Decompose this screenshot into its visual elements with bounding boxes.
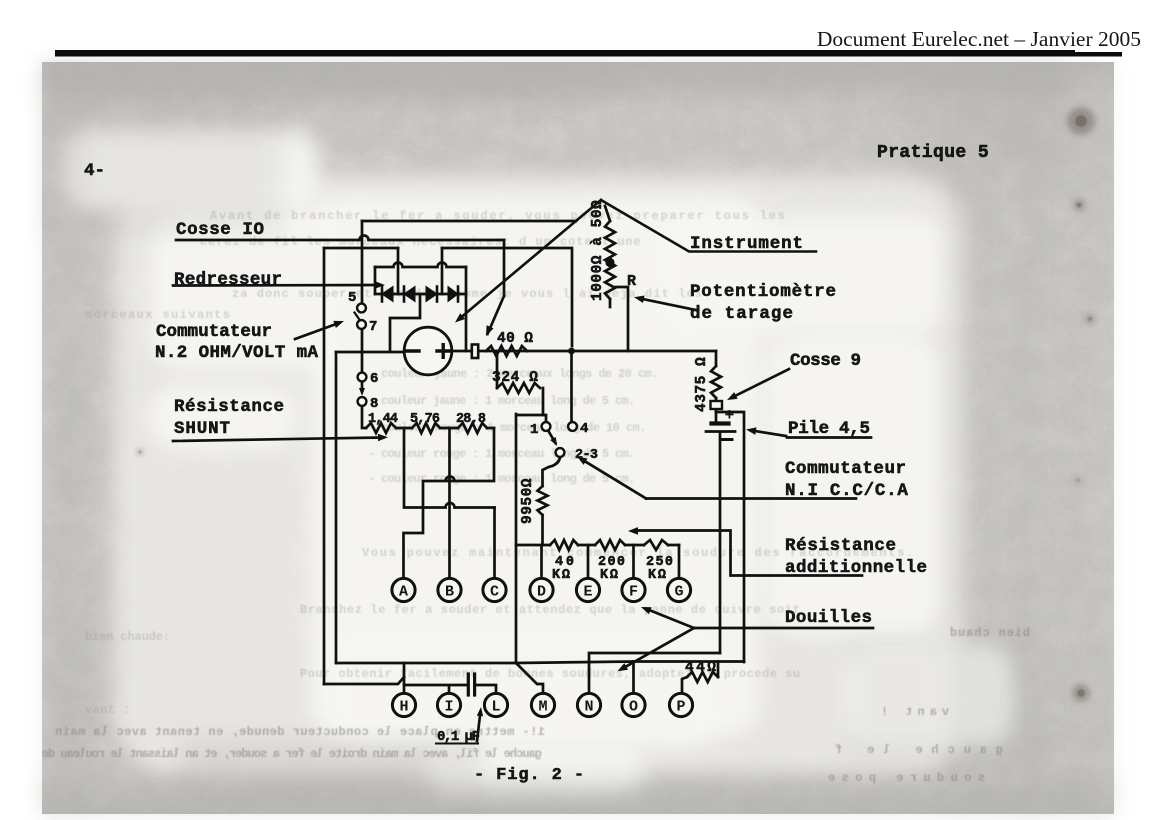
- svg-text:Pile 4,5: Pile 4,5: [788, 419, 870, 439]
- svg-text:40 Ω: 40 Ω: [497, 331, 533, 347]
- douille C: [483, 578, 506, 601]
- svg-text:morceaux suivants: morceaux suivants: [85, 308, 231, 322]
- meter instrument M: [404, 327, 452, 375]
- wire: outer left vertical: [323, 248, 326, 684]
- resistor shunt 5,76: [412, 423, 440, 433]
- wire: douille H stem: [403, 663, 406, 693]
- svg-text:Document Eurelec.net – Janvier: Document Eurelec.net – Janvier 2005: [817, 27, 1141, 51]
- svg-text:Redresseur: Redresseur: [174, 270, 282, 290]
- rectifier bridge diode D4: [457, 287, 460, 302]
- wire: 324 ohm left lead up to bus: [496, 351, 499, 388]
- svg-text:2-3: 2-3: [575, 448, 598, 463]
- switch contact 1: [542, 422, 551, 431]
- wire: switch column lower section contacts 7 to 6: [361, 329, 364, 372]
- svg-text:D: D: [537, 583, 546, 600]
- douille L: [484, 693, 507, 716]
- svg-text:M: M: [538, 698, 547, 715]
- switch contact 7: [357, 320, 366, 329]
- switch lever 5-7: [355, 313, 360, 320]
- svg-text:7: 7: [369, 319, 377, 335]
- wire: shunt tap1 down and across to douille C: [404, 428, 495, 508]
- wire: potentiometer bottom stub: [609, 299, 612, 307]
- svg-text:- couleur jaune : 1 morceau l: - couleur jaune : 1 morceau long de 5 cm…: [368, 394, 635, 408]
- svg-text:1: 1: [530, 422, 538, 438]
- wire: cosse 9 lead to battery: [715, 398, 718, 421]
- svg-text:Résistance: Résistance: [174, 397, 285, 417]
- douille E: [576, 578, 599, 601]
- wire: shunt row connections: [396, 427, 494, 430]
- svg-text:vant :: vant :: [85, 703, 130, 717]
- svg-text:Potentiomètre: Potentiomètre: [690, 282, 837, 302]
- douille A: [392, 578, 415, 601]
- wire: second top horizontal left segment: [324, 247, 398, 250]
- wire: battery minus lead down: [719, 432, 722, 653]
- wire: 44 ohm left lead to douille P: [682, 677, 687, 693]
- wire: outer bottom to H: [324, 677, 404, 684]
- wire: second top horizontal right segment to bus junction: [442, 248, 572, 346]
- node: Cosse IO corner down to Instrument B arrow: [503, 240, 506, 296]
- svg-text:Commutateur: Commutateur: [156, 322, 272, 342]
- svg-text:Douilles: Douilles: [785, 608, 872, 628]
- label pointer: Pile 4,5 underline and arrow: [787, 436, 871, 439]
- wire: potentiometer wiper to bus: [616, 287, 628, 351]
- label pointer: Resistance additionnelle bracket: [635, 531, 862, 576]
- svg-text:- couleur rouge : 1 morceau l: - couleur rouge : 1 morceau long de 5 cm…: [368, 472, 635, 486]
- wire: douille E stem: [587, 545, 590, 578]
- resistor 40 Kohm: [550, 540, 578, 550]
- wire: diode row baseline: [375, 293, 466, 296]
- svg-text:de tarage: de tarage: [690, 304, 794, 324]
- svg-text:+: +: [725, 406, 735, 425]
- wire: rectifier right down to main bus: [465, 267, 468, 351]
- wire: rectifier left down: [374, 267, 377, 294]
- header rule: [55, 50, 1075, 57]
- label pointer: Douilles underline and arrows: [694, 627, 873, 630]
- douille D: [530, 578, 553, 601]
- svg-text:0,1 µF: 0,1 µF: [437, 729, 480, 745]
- douille P: [669, 693, 692, 716]
- switch contact 8: [358, 397, 367, 406]
- wire: shunt tap2 straight down to douille B: [448, 428, 451, 578]
- wire: bridge input vertical left: [397, 248, 400, 294]
- svg-text:44Ω: 44Ω: [685, 660, 718, 676]
- svg-text:5: 5: [348, 290, 356, 306]
- label pointer: Redresseur: [173, 284, 378, 287]
- svg-text:N.2 OHM/VOLT mA: N.2 OHM/VOLT mA: [155, 343, 318, 363]
- wire: switch column vertical (cosse 10 line): [361, 221, 364, 303]
- svg-text:soudure pose: soudure pose: [822, 771, 985, 785]
- wire: 324 ohm right lead down to node: [542, 388, 545, 415]
- wire: 9950 bottom lead to chain bus: [541, 515, 544, 545]
- resistor 9950 ohm: [538, 486, 548, 515]
- svg-text:P: P: [676, 698, 685, 715]
- resistor shunt 1,44: [366, 423, 396, 433]
- resistor 324 ohm: [497, 383, 540, 393]
- douille N: [577, 693, 600, 716]
- svg-text:Commutateur: Commutateur: [785, 459, 907, 479]
- wire: bottom bus battery to douille N: [589, 653, 720, 693]
- switch contact 5: [357, 304, 366, 313]
- svg-text:vant !: vant !: [876, 705, 949, 719]
- svg-text:I: I: [444, 698, 453, 715]
- wire: top horizontal from switch column to Instrument pointer: [362, 220, 576, 223]
- svg-text:8: 8: [370, 396, 378, 412]
- cosse 9 lug: [711, 401, 723, 409]
- wire: potentiometer top lead: [605, 206, 610, 221]
- svg-text:Instrument: Instrument: [690, 234, 804, 254]
- switch contact 2-3: [556, 448, 565, 457]
- switch lever 6-8 arrow: [361, 383, 364, 392]
- svg-text:L: L: [491, 698, 500, 715]
- svg-text:N: N: [584, 698, 593, 715]
- wire: 44 ohm right lead: [717, 662, 720, 678]
- wire: bus corner down to 4375 resistor: [715, 351, 718, 366]
- resistor 44 ohm: [687, 672, 718, 682]
- resistor 40 ohm: [486, 346, 527, 356]
- wire: node row to contact 1 and inner column: [516, 414, 546, 663]
- rectifier bridge diode D2: [403, 287, 406, 302]
- wire: inner box bottom bus: [336, 662, 516, 665]
- wire: battery plus branch right and down: [716, 412, 744, 662]
- connector B (shunt lug): [472, 345, 478, 359]
- svg-text:4-: 4-: [84, 161, 105, 181]
- svg-text:28,8: 28,8: [456, 412, 486, 427]
- douille H: [392, 693, 415, 716]
- wire: Cosse IO lead with hop over switch column: [176, 236, 504, 241]
- svg-text:9950Ω: 9950Ω: [520, 478, 536, 524]
- resistor 4375 ohm: [711, 366, 721, 398]
- label pointer: Instrument: [601, 200, 816, 252]
- rectifier bridge diode D3: [436, 287, 439, 302]
- svg-text:C: C: [490, 583, 499, 600]
- wire: rectifier top link with hops: [375, 263, 466, 268]
- battery pile 4,5 plates: [712, 421, 729, 425]
- svg-text:B: B: [445, 583, 454, 600]
- resistor shunt 28,8: [458, 423, 487, 433]
- wire: lever contact1 to contact 2-3: [549, 432, 556, 443]
- svg-text:F: F: [629, 583, 638, 600]
- svg-text:KΩ: KΩ: [552, 568, 572, 583]
- svg-text:5,76: 5,76: [410, 412, 440, 427]
- label pointer: Resistance SHUNT: [173, 438, 381, 442]
- wire: contact 2-3 down to 9950 resistor: [543, 458, 561, 487]
- douille M: [531, 693, 554, 716]
- node: bus junction dot: [568, 348, 575, 355]
- svg-text:Cosse 9: Cosse 9: [790, 351, 861, 371]
- svg-text:H: H: [399, 698, 408, 715]
- wire: douille F stem: [632, 545, 635, 578]
- svg-text:SHUNT: SHUNT: [174, 419, 231, 439]
- wire: bridge input vertical right: [441, 248, 444, 294]
- label pointer: 0,1 uF arrow: [477, 712, 480, 741]
- douille B: [438, 578, 461, 601]
- svg-text:gauche le f: gauche le f: [826, 743, 1003, 757]
- label pointer: Commutateur N.I underline and arrow: [646, 497, 856, 500]
- resistor 200 Kohm: [595, 540, 625, 550]
- wire: bus to douille O: [516, 662, 634, 694]
- douille I: [437, 693, 460, 716]
- svg-text:additionnelle: additionnelle: [785, 558, 928, 578]
- wire: douille D stem: [540, 545, 543, 578]
- bleed-through text from page verso: [42, 209, 1030, 785]
- wire: jog to douille M: [516, 663, 543, 693]
- label pointer: Cosse 9: [733, 369, 789, 397]
- douille O: [622, 693, 645, 716]
- svg-text:O: O: [629, 698, 638, 715]
- label pointer: Potentiometre de tarage: [640, 299, 698, 311]
- wire: o stem horizontal to plus column: [634, 660, 745, 663]
- wire: douille G stem: [678, 545, 681, 578]
- svg-text:KΩ: KΩ: [648, 568, 668, 583]
- douille G: [667, 578, 690, 601]
- svg-text:Pour obtenir facilement de bon: Pour obtenir facilement de bonnes soudur…: [300, 667, 801, 681]
- svg-text:KΩ: KΩ: [600, 568, 620, 583]
- svg-text:Branchez le fer a souder et at: Branchez le fer a souder et attendez que…: [300, 603, 801, 617]
- svg-text:6: 6: [370, 371, 378, 387]
- svg-text:E: E: [583, 583, 592, 600]
- wire: main bus meter to right corner: [452, 350, 716, 353]
- switch contact 4: [568, 422, 577, 431]
- svg-text:1000Ω à 50Ω: 1000Ω à 50Ω: [590, 200, 606, 301]
- switch contact 6: [358, 373, 367, 382]
- svg-text:Pratique 5: Pratique 5: [877, 143, 989, 163]
- potentiometer R 1000 ohm: [605, 221, 615, 299]
- scan spots right edge: [137, 107, 1097, 702]
- svg-text:gauche le fil, avec la main dr: gauche le fil, avec la main droite le fe…: [42, 747, 542, 761]
- potentiometer wiper dot: [605, 258, 614, 267]
- svg-text:Cosse IO: Cosse IO: [176, 220, 265, 240]
- wire: below contact 8 down to shunt row: [362, 406, 366, 428]
- svg-text:Résistance: Résistance: [785, 536, 897, 556]
- douille F: [622, 578, 645, 601]
- svg-text:R: R: [627, 273, 636, 290]
- wire: douille C stem: [493, 508, 496, 579]
- svg-text:bien chaud: bien chaud: [949, 626, 1030, 640]
- wire: resistor chain bus: [516, 544, 679, 547]
- svg-text:cerez de fil les morceaux: cerez de fil les morceaux necessaires: d…: [200, 235, 642, 249]
- svg-text:- Fig. 2 -: - Fig. 2 -: [474, 766, 585, 785]
- svg-text:bien chaude:: bien chaude:: [85, 630, 170, 644]
- svg-text:324 Ω: 324 Ω: [492, 370, 539, 386]
- label pointer: Commutateur N.2: [295, 323, 339, 339]
- rectifier bridge diode D1: [381, 287, 384, 302]
- wire: main bus left of meter: [336, 351, 404, 354]
- capacitor 0,1 uF: [468, 674, 474, 695]
- wire: junction down to contact 4: [570, 351, 573, 421]
- wire: capacitor bus H I L: [404, 685, 496, 693]
- svg-text:1,44: 1,44: [368, 412, 398, 427]
- wire: left inner vertical from bus: [335, 352, 338, 663]
- wire: shunt end down, across and to douille A: [404, 428, 495, 578]
- svg-text:G: G: [674, 583, 683, 600]
- svg-text:N.I C.C/C.A: N.I C.C/C.A: [785, 481, 909, 501]
- resistor 250 Kohm: [644, 540, 668, 550]
- label pointer: 0,1 uF underline: [436, 743, 478, 745]
- svg-text:4: 4: [580, 421, 588, 437]
- wire: bridge center tap down to meter bus: [390, 294, 420, 351]
- svg-text:A: A: [399, 583, 408, 600]
- svg-text:4375 Ω: 4375 Ω: [694, 357, 710, 412]
